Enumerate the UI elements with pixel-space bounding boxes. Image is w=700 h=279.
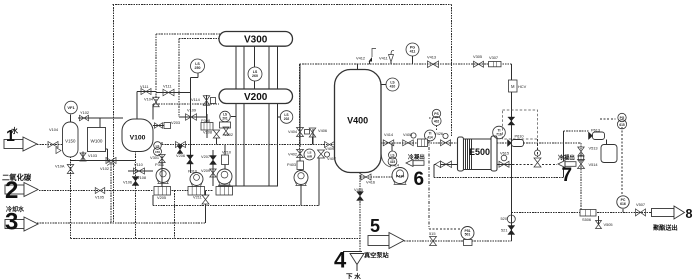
svg-text:AIR: AIR	[307, 155, 313, 159]
svg-text:6: 6	[414, 169, 425, 190]
svg-text:V205: V205	[157, 195, 166, 200]
svg-text:V409: V409	[325, 146, 334, 151]
svg-text:V301: V301	[150, 155, 159, 160]
svg-text:V426: V426	[434, 131, 443, 136]
svg-text:7: 7	[562, 165, 573, 186]
svg-text:V207: V207	[201, 154, 210, 159]
svg-text:真空泵站: 真空泵站	[364, 252, 390, 260]
svg-text:V200: V200	[244, 92, 268, 103]
svg-text:冷凝出: 冷凝出	[408, 153, 425, 161]
svg-text:V416: V416	[366, 180, 375, 185]
svg-text:下 水: 下 水	[346, 272, 361, 279]
svg-text:V407: V407	[327, 156, 336, 161]
svg-text:PS: PS	[434, 112, 439, 116]
svg-text:3: 3	[5, 209, 18, 236]
svg-text:V100: V100	[130, 135, 146, 142]
svg-text:V402: V402	[288, 152, 297, 157]
svg-text:V104: V104	[49, 127, 59, 132]
svg-text:V300: V300	[244, 35, 268, 46]
svg-text:8: 8	[686, 207, 693, 221]
svg-text:150: 150	[155, 150, 160, 154]
svg-text:P403: P403	[287, 162, 296, 167]
svg-text:聚酯送出: 聚酯送出	[652, 224, 678, 232]
svg-text:V114: V114	[191, 97, 201, 102]
svg-text:V202: V202	[224, 132, 233, 137]
svg-text:521: 521	[501, 228, 508, 233]
svg-text:HCV: HCV	[518, 84, 527, 89]
svg-text:V514: V514	[589, 162, 599, 167]
svg-text:V305: V305	[473, 54, 482, 59]
svg-text:V411: V411	[379, 56, 388, 61]
svg-text:S506: S506	[582, 217, 591, 222]
svg-text:616: 616	[620, 202, 626, 206]
svg-text:V412: V412	[356, 56, 365, 61]
svg-text:V307: V307	[489, 55, 498, 60]
svg-text:V210: V210	[222, 150, 232, 155]
svg-text:V103: V103	[88, 153, 97, 158]
svg-text:V400: V400	[347, 116, 368, 126]
svg-text:V406: V406	[318, 128, 327, 133]
svg-text:M: M	[511, 84, 515, 89]
svg-text:402: 402	[434, 120, 440, 124]
svg-text:V507: V507	[636, 202, 645, 207]
svg-text:P308: P308	[201, 118, 210, 123]
svg-text:202: 202	[284, 117, 290, 121]
svg-text:515: 515	[429, 231, 436, 236]
svg-text:V10A: V10A	[55, 164, 65, 169]
svg-text:P610: P610	[515, 134, 525, 139]
svg-text:716: 716	[496, 133, 502, 137]
svg-text:V108: V108	[137, 175, 146, 180]
svg-text:V513: V513	[589, 146, 598, 151]
svg-text:V102: V102	[100, 166, 109, 171]
svg-text:260: 260	[252, 74, 258, 78]
svg-text:P414: P414	[396, 175, 404, 179]
svg-text:V408: V408	[403, 132, 412, 137]
svg-text:V404: V404	[288, 129, 298, 134]
svg-text:V209: V209	[201, 168, 210, 173]
svg-text:Y102: Y102	[80, 110, 89, 115]
svg-text:V413: V413	[427, 55, 436, 60]
svg-text:5: 5	[370, 216, 380, 236]
svg-text:P301: P301	[155, 162, 164, 167]
svg-text:V110: V110	[134, 162, 144, 167]
svg-text:414: 414	[427, 136, 433, 140]
svg-text:V505: V505	[604, 222, 613, 227]
svg-text:E500: E500	[469, 147, 490, 157]
svg-text:V203: V203	[171, 120, 180, 125]
svg-text:410: 410	[390, 85, 396, 89]
svg-text:615: 615	[619, 123, 625, 127]
svg-text:V211: V211	[193, 195, 202, 200]
svg-text:P310: P310	[188, 169, 198, 174]
svg-text:V208: V208	[203, 130, 212, 135]
svg-text:V109: V109	[187, 108, 196, 113]
svg-text:520: 520	[501, 216, 508, 221]
svg-text:V106: V106	[123, 180, 132, 185]
svg-text:4: 4	[334, 248, 347, 273]
svg-text:P613: P613	[591, 128, 600, 133]
svg-text:V414: V414	[384, 132, 394, 137]
svg-text:V615: V615	[500, 151, 509, 156]
svg-text:VF1: VF1	[67, 105, 75, 110]
svg-text:501: 501	[465, 233, 471, 237]
svg-text:V415: V415	[354, 187, 363, 192]
svg-text:W100: W100	[90, 139, 102, 144]
svg-text:P414: P414	[390, 163, 400, 168]
svg-text:V111: V111	[163, 84, 172, 89]
svg-text:V111: V111	[140, 84, 149, 89]
svg-text:冷凝出: 冷凝出	[558, 154, 575, 162]
svg-text:V105: V105	[95, 195, 104, 200]
svg-text:2: 2	[5, 177, 18, 204]
svg-text:250: 250	[195, 66, 201, 70]
svg-text:V206: V206	[176, 153, 185, 158]
svg-text:201: 201	[222, 117, 228, 121]
svg-text:V104: V104	[144, 97, 154, 102]
svg-text:1: 1	[6, 128, 15, 145]
svg-text:411: 411	[410, 50, 416, 54]
svg-text:V150: V150	[65, 139, 76, 144]
